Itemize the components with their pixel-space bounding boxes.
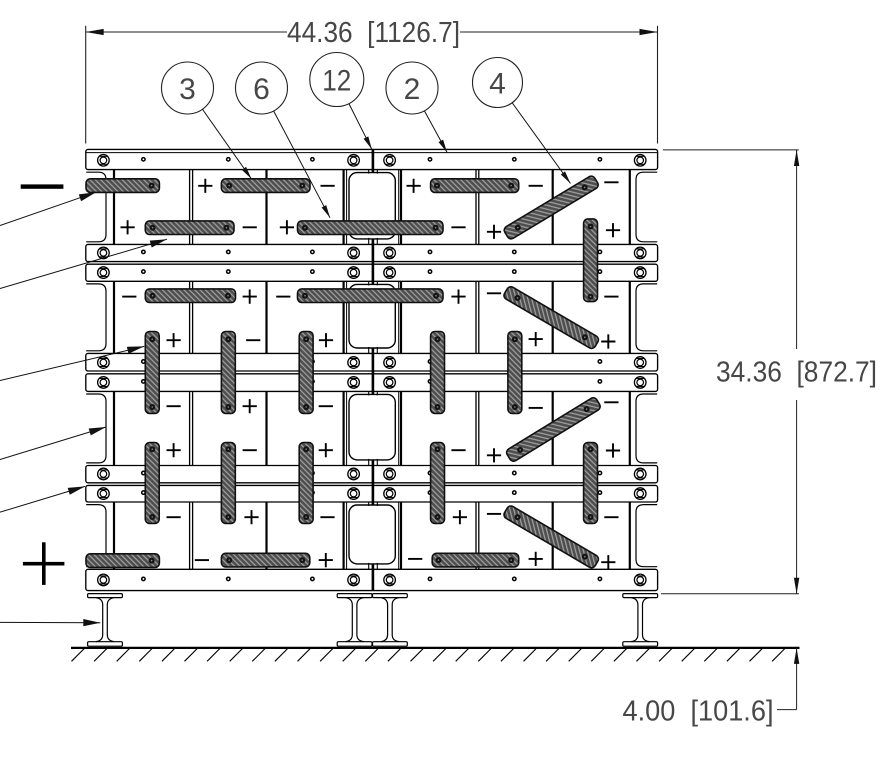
leader to tier2 jumper strap: [0, 346, 144, 380]
left frame flange tier 2: [86, 284, 106, 351]
leader to tier1 connector: [0, 239, 167, 288]
long connector strap tier1 lower (balloon 6): [298, 221, 444, 235]
right frame flange tier 1: [636, 172, 657, 242]
balloon callout 3: [162, 62, 252, 179]
ground hatching: [72, 648, 786, 661]
rail C1: [86, 353, 658, 371]
right frame flange tier 4: [636, 505, 657, 567]
rail A: [86, 149, 658, 169]
I-beam floor stand #1: [88, 594, 123, 647]
vertical jumper strap tier2-3 #3: [299, 332, 313, 414]
diagonal strap tier2: [502, 285, 600, 350]
left frame flange tier 3: [86, 394, 106, 463]
negative terminal strap tier 1: [86, 179, 159, 193]
center frame channel tier 1: [349, 170, 395, 245]
diagonal strap tier3: [505, 396, 602, 462]
svg-text:6: 6: [253, 73, 270, 106]
vertical jumper strap tier3-4 #4: [431, 443, 445, 524]
vertical jumper strap tier3-4 #3: [299, 443, 313, 524]
rail D2: [86, 485, 658, 502]
dimension 4.00 [101.6]: [623, 648, 800, 728]
right frame flange tier 3: [636, 394, 657, 463]
rail B1: [86, 244, 658, 261]
I-beam floor stand #4: [623, 594, 658, 647]
rail D1: [86, 466, 658, 483]
vertical jumper strap tier2-3 #4: [431, 332, 445, 414]
balloon callout 12: [310, 53, 372, 150]
long connector strap tier2 upper: [298, 289, 444, 303]
svg-text:4.00 [101.6]: 4.00 [101.6]: [623, 696, 774, 728]
connector strap tier2 upper left: [145, 289, 235, 303]
vertical jumper strap tier2-3 #5: [508, 332, 522, 414]
battery cell edges tier 2: [114, 281, 630, 353]
I-beam floor stand #2: [337, 594, 372, 647]
vertical jumper strap tier1-2 right: [584, 219, 598, 302]
battery cell edges tier 3: [114, 391, 630, 465]
connector strap tier4 lower left: [221, 553, 309, 567]
rail E: [86, 569, 658, 590]
diagonal strap tier1 (balloon 4): [503, 175, 600, 241]
center frame channel tier 4: [349, 502, 395, 569]
leader to rack frame upright: [0, 427, 106, 460]
svg-text:3: 3: [179, 73, 196, 106]
battery cell edges tier 4: [114, 502, 630, 569]
leader to negative terminal strap: [0, 192, 96, 225]
battery polarity signs: [121, 179, 621, 570]
rail B2: [86, 264, 658, 281]
leader to I-beam stand: [0, 619, 100, 626]
connector strap tier1 upper right: [431, 179, 519, 193]
balloon callout 6: [236, 62, 331, 218]
svg-text:4: 4: [489, 67, 506, 100]
connector strap tier1 upper mid (balloon 3): [221, 179, 310, 193]
left frame flange tier 1: [86, 172, 106, 242]
ground line: [71, 647, 800, 649]
balloon callout 2: [386, 62, 447, 152]
vertical jumper strap tier3-4 #1: [145, 443, 159, 524]
center frame channel tier 2: [349, 281, 395, 353]
svg-text:34.36 [872.7]: 34.36 [872.7]: [716, 357, 877, 389]
battery cell edges tier 1: [114, 170, 630, 245]
svg-text:44.36 [1126.7]: 44.36 [1126.7]: [287, 17, 460, 49]
balloon callout 4: [473, 58, 571, 184]
connector strap tier1 lower left: [145, 221, 234, 235]
vertical jumper strap tier2-3 #1: [145, 332, 159, 414]
leader to rail left end: [0, 486, 85, 512]
connector strap tier4 lower right: [432, 553, 519, 567]
positive terminal strap tier 4: [86, 554, 159, 568]
center frame split line: [372, 149, 375, 590]
diagonal strap tier4: [502, 504, 599, 569]
vertical jumper strap tier2-3 #2: [221, 332, 235, 414]
right frame flange tier 2: [636, 284, 657, 351]
rail C2: [86, 374, 658, 392]
center frame channel tier 3: [349, 391, 395, 465]
bold minus terminal symbol: [21, 184, 64, 188]
I-beam floor stand #3: [373, 594, 408, 647]
left frame flange tier 4: [86, 505, 106, 567]
svg-text:12: 12: [322, 64, 351, 97]
bold plus terminal symbol: [23, 542, 65, 585]
dimension 34.36 [872.7]: [661, 150, 877, 594]
dimension 44.36 [1126.7]: [86, 17, 658, 143]
svg-text:2: 2: [404, 73, 421, 106]
vertical jumper strap tier3-4 #5: [584, 443, 598, 524]
vertical jumper strap tier3-4 #2: [221, 443, 235, 524]
